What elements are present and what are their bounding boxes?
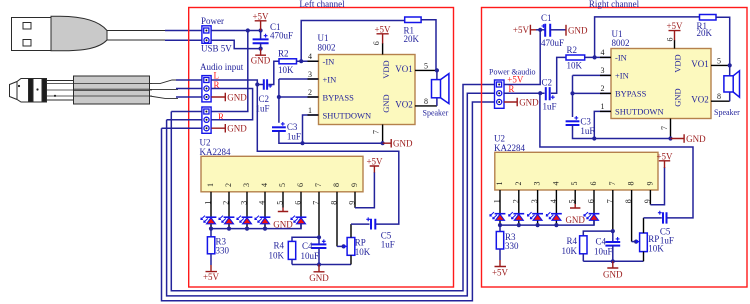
svg-text:U1: U1 <box>318 33 329 43</box>
pin 3 right <box>600 74 611 76</box>
capacitor C1 470uF <box>253 22 293 48</box>
wire R audio to C5 loop right <box>540 93 693 218</box>
ground GND at J4 pin3 <box>504 97 539 107</box>
wire J3 pin2 to left edge <box>167 119 202 121</box>
op-amp U1 8002 right channel body <box>611 29 711 119</box>
svg-text:5: 5 <box>568 199 577 203</box>
junction at 247.8,30.5 <box>246 28 250 32</box>
svg-text:8: 8 <box>717 92 721 101</box>
svg-text:Audio input: Audio input <box>200 62 244 72</box>
svg-text:8: 8 <box>624 199 633 203</box>
op-amp U1 8002 body <box>318 33 416 125</box>
wire LED common rail right <box>500 220 594 225</box>
wire pin9 to +5V <box>355 172 374 208</box>
ground GND at pin5 <box>273 208 293 230</box>
capacitor C5 1uF <box>351 217 395 249</box>
potentiometer RP 10K right <box>636 218 664 261</box>
wire plug sleeve to J2 pin3 <box>176 96 202 98</box>
wire feedback to R1 right channel <box>595 17 700 58</box>
junction at C1 bottom <box>259 47 263 51</box>
svg-text:USB 5V: USB 5V <box>201 44 232 54</box>
ground GND at right pin7 <box>671 134 707 144</box>
pin 4 <box>264 192 266 229</box>
svg-text:9: 9 <box>645 182 654 186</box>
pin 7 GND right <box>670 119 672 139</box>
svg-text:VDD: VDD <box>673 54 683 72</box>
svg-text:3: 3 <box>601 66 605 75</box>
pin 1 <box>308 114 319 116</box>
svg-text:9: 9 <box>643 199 652 203</box>
pin 8 <box>336 192 338 247</box>
left channel border box <box>189 8 454 288</box>
svg-text:1uF: 1uF <box>287 132 301 142</box>
junction L node branch <box>255 82 259 86</box>
wire pin8 to RP wiper <box>337 245 344 247</box>
potentiometer RP 10K <box>343 224 370 264</box>
connector J3 to right channel <box>202 107 211 133</box>
resistor R1 20K right channel <box>697 15 717 39</box>
svg-text:5: 5 <box>570 182 579 186</box>
wire R2 to -IN right pin4 <box>585 56 611 58</box>
junction rail pin2 <box>227 227 231 231</box>
junction BYPASS right <box>570 91 574 95</box>
power +5V right of right U2 <box>656 151 673 168</box>
svg-text:BYPASS: BYPASS <box>323 92 355 102</box>
speaker LS2 <box>714 65 740 117</box>
LED D4 <box>255 216 271 224</box>
svg-text:10K: 10K <box>269 251 285 261</box>
ground GND at J2 pin3 <box>211 92 247 102</box>
wire R1 to VO1 right <box>716 17 730 65</box>
connector J4 Power &audio <box>489 68 535 109</box>
junction rail pin3 <box>245 227 249 231</box>
svg-text:R2: R2 <box>278 49 289 59</box>
capacitor C5 1uF right <box>644 211 674 246</box>
junction pin7-gnd right <box>668 136 672 140</box>
svg-text:1: 1 <box>206 183 215 187</box>
pin 4 right <box>600 56 611 58</box>
junction feedback right <box>593 55 597 59</box>
svg-text:6: 6 <box>665 38 674 42</box>
svg-text:7: 7 <box>605 199 614 203</box>
svg-text:6: 6 <box>294 201 303 205</box>
wire J3 pin1 to left edge <box>171 111 202 113</box>
ground GND below C4 <box>309 265 329 284</box>
power +5V below right R3 <box>492 260 509 278</box>
junction C1 plus node <box>538 28 542 32</box>
svg-text:R4: R4 <box>273 241 284 251</box>
svg-text:5: 5 <box>424 62 428 71</box>
svg-text:GND: GND <box>568 25 588 35</box>
wire bottom GND rail <box>292 264 351 266</box>
svg-text:1uF: 1uF <box>381 240 395 250</box>
ground GND right of C1 <box>566 25 588 36</box>
svg-text:2: 2 <box>222 201 231 205</box>
capacitor C3 1uF <box>272 122 301 142</box>
svg-text:-IN: -IN <box>615 53 627 63</box>
pin 5 right U2 <box>574 190 576 204</box>
svg-text:4: 4 <box>551 182 560 186</box>
IC U2 KA2284 body <box>201 156 363 192</box>
svg-text:330: 330 <box>216 246 230 256</box>
svg-text:+5V: +5V <box>513 25 530 35</box>
svg-text:+5V: +5V <box>203 272 220 282</box>
svg-text:R4: R4 <box>566 236 577 246</box>
svg-text:GND: GND <box>251 56 271 66</box>
pin 7 right U2 <box>612 190 614 231</box>
power +5V right of U2 <box>366 157 383 173</box>
resistor R3 330 right <box>496 225 519 260</box>
power +5V left of C1 right channel <box>513 25 536 35</box>
junction R branch node <box>538 91 542 95</box>
pin 1 <box>210 192 212 229</box>
svg-text:2: 2 <box>308 88 312 97</box>
power +5V at right pin6 <box>666 21 683 40</box>
wire C3 bottom rail to pin7 <box>279 131 383 143</box>
svg-text:C4: C4 <box>596 236 607 246</box>
svg-text:VO1: VO1 <box>395 64 413 74</box>
LED D1 <box>201 216 217 224</box>
wire R from J2 pin2 down to J3 pin2 <box>211 89 252 120</box>
svg-text:C3: C3 <box>580 117 591 127</box>
wire R signal to C2 right channel <box>504 92 545 94</box>
junction shutdown-rail right <box>592 136 596 140</box>
junction BYPASS node <box>277 95 281 99</box>
pin 2 right U2 <box>518 190 520 225</box>
wire feedback to R1 <box>301 21 405 62</box>
svg-text:10uF: 10uF <box>301 251 320 261</box>
junction shutdown-rail <box>300 141 304 145</box>
wire +IN vertical with BYPASS tap <box>279 79 319 123</box>
svg-text:Speaker: Speaker <box>714 108 740 117</box>
wire plug ring to J2 pin2 <box>176 88 202 90</box>
svg-text:+5V: +5V <box>656 151 673 161</box>
svg-text:3: 3 <box>530 199 539 203</box>
svg-text:3: 3 <box>240 201 249 205</box>
svg-text:470uF: 470uF <box>541 38 564 48</box>
wire SHUTDOWN pin1 down <box>303 115 319 143</box>
svg-text:Power: Power <box>201 16 224 26</box>
svg-text:2: 2 <box>224 183 233 187</box>
svg-text:5: 5 <box>717 56 721 65</box>
junction C4 bottom <box>317 262 321 266</box>
svg-text:GND: GND <box>393 138 413 148</box>
svg-text:7: 7 <box>660 126 669 130</box>
pin 8 VO2 <box>415 105 437 107</box>
wire J3 pin3 to left edge <box>162 127 203 129</box>
LED D10 <box>584 212 600 220</box>
wire +5V drop to J3 pin1 <box>211 31 247 112</box>
right channel border box <box>482 8 748 288</box>
wire C2 to R2 right channel <box>551 57 566 93</box>
wire bottom GND rail right <box>583 260 643 262</box>
pin 4 right U2 <box>555 190 557 225</box>
wire +5V rail from Power pin1 to C1 <box>211 30 260 32</box>
wire C2 right to R2 left <box>268 61 279 84</box>
pin 6 VDD <box>382 43 384 55</box>
svg-text:470uF: 470uF <box>270 31 293 41</box>
power +5V below R3 <box>203 265 220 282</box>
ground GND at pin7 <box>383 138 413 148</box>
svg-text:8: 8 <box>627 182 636 186</box>
pin 6 right U2 <box>593 190 595 225</box>
svg-text:KA2284: KA2284 <box>494 143 525 153</box>
wire plug tip to J2 pin1 <box>176 79 202 81</box>
LED D6 <box>490 212 506 220</box>
svg-text:8002: 8002 <box>612 38 630 48</box>
wire +5V interconnect left to right channel <box>171 85 494 291</box>
svg-text:4: 4 <box>258 201 267 205</box>
svg-text:1: 1 <box>308 106 312 115</box>
svg-text:C4: C4 <box>302 241 313 251</box>
ground GND at J3 pin3 <box>211 124 247 134</box>
pin 3 <box>308 78 319 80</box>
svg-text:+5V: +5V <box>252 11 269 21</box>
connector J1 Power (USB 5V) <box>201 16 232 54</box>
junction right C4 bottom <box>611 259 615 263</box>
svg-text:+5V: +5V <box>366 157 383 167</box>
pin 8 VO2 right <box>711 100 730 102</box>
junction right pin7 top rail <box>611 229 615 233</box>
ground GND at right pin5 <box>565 204 585 225</box>
svg-text:1uF: 1uF <box>580 126 594 136</box>
capacitor C2 1uF <box>256 79 273 113</box>
svg-text:4: 4 <box>601 48 605 57</box>
svg-text:C2: C2 <box>259 94 270 104</box>
resistor R2 10K <box>278 49 297 75</box>
svg-text:10uF: 10uF <box>594 246 613 256</box>
connector J2 Audio input <box>200 62 244 102</box>
wire USB +5V to Power pin1 <box>165 30 202 32</box>
svg-text:GND: GND <box>227 124 247 134</box>
pin 9 right U2 <box>649 190 651 205</box>
pin 3 right U2 <box>537 190 539 225</box>
svg-text:1: 1 <box>601 102 605 111</box>
resistor R4 10K <box>269 241 296 265</box>
svg-text:Right channel: Right channel <box>589 0 640 9</box>
svg-text:8: 8 <box>424 97 428 106</box>
svg-text:+5V: +5V <box>507 75 524 85</box>
svg-text:VO1: VO1 <box>691 59 709 69</box>
svg-text:SHUTDOWN: SHUTDOWN <box>323 110 372 120</box>
svg-text:1: 1 <box>204 201 213 205</box>
svg-text:10K: 10K <box>355 247 371 257</box>
LED D5 <box>291 216 307 224</box>
svg-text:GND: GND <box>227 92 247 102</box>
pin 2 <box>308 96 319 98</box>
svg-text:C3: C3 <box>287 122 298 132</box>
wire SHUTDOWN right down <box>594 111 611 138</box>
junction feedback node <box>299 59 303 63</box>
wire L from J2 pin1 to C2 <box>211 80 263 85</box>
wire Power pin2 to C1 bottom <box>211 40 260 48</box>
svg-text:VO2: VO2 <box>395 99 413 109</box>
speaker LS1 <box>423 70 449 117</box>
svg-text:3: 3 <box>242 183 251 187</box>
junction pin7-gnd <box>381 141 385 145</box>
LED D9 <box>546 212 562 220</box>
svg-text:L: L <box>214 71 220 81</box>
wire R1 right to VO1 node <box>421 20 436 71</box>
resistor R2 10K right channel <box>566 45 585 71</box>
svg-text:-IN: -IN <box>323 56 335 66</box>
wire +5V to C1 <box>536 29 545 31</box>
pin 3 <box>246 192 248 229</box>
svg-text:U2: U2 <box>200 137 211 147</box>
capacitor C4 10uF right <box>594 231 620 261</box>
svg-text:5: 5 <box>278 183 287 187</box>
svg-text:2: 2 <box>511 199 520 203</box>
svg-text:VDD: VDD <box>381 60 391 78</box>
svg-text:GND: GND <box>381 94 391 112</box>
svg-text:6: 6 <box>587 199 596 203</box>
power +5V symbol above C1 <box>252 11 269 30</box>
ground GND below right C4 <box>603 261 623 279</box>
svg-text:7: 7 <box>608 182 617 186</box>
LED D2 <box>219 216 235 224</box>
svg-text:1: 1 <box>495 182 504 186</box>
resistor R3 330 <box>207 229 229 265</box>
wire pin9 to +5V right <box>650 167 664 205</box>
pin 9 <box>354 192 356 208</box>
resistor R4 10K right <box>562 236 588 261</box>
pin 5 VO1 right <box>711 64 730 66</box>
IC U2 KA2284 right body <box>495 152 658 190</box>
svg-text:9: 9 <box>348 201 357 205</box>
svg-text:KA2284: KA2284 <box>200 147 231 157</box>
svg-text:4: 4 <box>549 199 558 203</box>
svg-text:BYPASS: BYPASS <box>615 89 647 99</box>
svg-text:RP: RP <box>648 234 659 244</box>
svg-text:C1: C1 <box>541 13 552 23</box>
junction VO1-speaker <box>435 68 439 72</box>
wire C1 to GND <box>550 29 566 31</box>
ground GND below C1 <box>251 49 271 66</box>
svg-text:330: 330 <box>505 241 519 251</box>
capacitor C1 470uF right channel <box>541 13 564 48</box>
junction pin8 wiper <box>342 244 346 248</box>
power +5V at pin6 <box>374 24 391 43</box>
wire C3 bottom rail right <box>573 125 671 139</box>
junction pin7 top rail <box>317 235 321 239</box>
pin 2 right <box>600 92 611 94</box>
wire GND interconnect left to right channel <box>162 102 495 301</box>
LED D3 <box>237 216 253 224</box>
pin 6 <box>300 192 302 229</box>
svg-text:+IN: +IN <box>323 74 337 84</box>
pin 7 <box>318 192 320 238</box>
svg-text:8002: 8002 <box>318 43 336 53</box>
junction rail pin1 <box>209 227 213 231</box>
svg-text:3: 3 <box>533 182 542 186</box>
svg-text:4: 4 <box>308 52 312 61</box>
svg-text:10K: 10K <box>567 61 583 71</box>
svg-text:Speaker: Speaker <box>423 109 449 118</box>
svg-text:RP: RP <box>355 238 366 248</box>
junction rail right pin3 <box>536 223 540 227</box>
svg-text:8: 8 <box>332 183 341 187</box>
LED D7 <box>509 212 525 220</box>
svg-text:C2: C2 <box>542 78 553 88</box>
svg-text:9: 9 <box>350 183 359 187</box>
svg-text:4: 4 <box>260 183 269 187</box>
wire +IN vertical right with BYPASS tap <box>573 75 612 117</box>
junction right pin8 wiper <box>634 240 638 244</box>
pin 8 right U2 <box>631 190 633 242</box>
capacitor C2 1uF right channel <box>542 78 557 112</box>
wire R4C4 top rail right <box>583 231 613 236</box>
svg-text:6: 6 <box>296 183 305 187</box>
svg-text:VO2: VO2 <box>691 95 709 105</box>
svg-text:3: 3 <box>308 70 312 79</box>
svg-text:8: 8 <box>330 201 339 205</box>
svg-text:7: 7 <box>314 183 323 187</box>
svg-text:5: 5 <box>276 201 285 205</box>
svg-text:2: 2 <box>514 182 523 186</box>
svg-text:6: 6 <box>589 182 598 186</box>
pin 5 VO1 <box>415 69 437 71</box>
svg-text:7: 7 <box>312 201 321 205</box>
wire USB GND to Power pin2 <box>165 39 202 41</box>
svg-text:+5V: +5V <box>492 268 509 278</box>
pin 1 right U2 <box>499 190 501 225</box>
junction at C1 top <box>259 28 263 32</box>
wire LED common rail <box>211 224 301 229</box>
wire R4C4 top rail <box>292 237 319 241</box>
svg-text:Left channel: Left channel <box>299 0 345 9</box>
junction VO1-speaker right <box>728 63 732 67</box>
capacitor C3 1uF right channel <box>566 116 595 136</box>
pin 1 right <box>600 110 611 112</box>
pin 5 <box>282 192 284 208</box>
svg-text:20K: 20K <box>404 34 420 44</box>
svg-text:20K: 20K <box>697 28 713 38</box>
pin 7 GND <box>382 125 384 144</box>
pin 6 VDD right <box>674 40 676 49</box>
junction rail pin4 <box>263 227 267 231</box>
svg-text:GND: GND <box>309 273 329 283</box>
wire L audio to C5 loop <box>257 85 399 225</box>
svg-text:1uF: 1uF <box>660 235 674 245</box>
svg-text:GND: GND <box>565 215 585 225</box>
svg-text:SHUTDOWN: SHUTDOWN <box>615 107 664 117</box>
svg-text:+5V: +5V <box>374 24 391 34</box>
USB plug drawing <box>12 16 168 51</box>
svg-text:GND: GND <box>519 97 539 107</box>
wire R interconnect left to right channel <box>167 93 495 296</box>
wire +5V drop to power connector <box>504 30 540 85</box>
svg-text:10K: 10K <box>562 246 578 256</box>
svg-text:1uF: 1uF <box>543 102 557 112</box>
svg-text:+IN: +IN <box>615 71 629 81</box>
capacitor C4 10uF <box>301 237 327 264</box>
svg-text:10K: 10K <box>278 65 294 75</box>
svg-text:6: 6 <box>372 41 381 45</box>
junction rail right pin1 <box>498 223 502 227</box>
svg-text:2: 2 <box>601 84 605 93</box>
svg-text:U2: U2 <box>494 134 505 144</box>
LED D8 <box>528 212 544 220</box>
svg-text:GND: GND <box>673 88 683 106</box>
resistor R1 20K <box>404 17 422 44</box>
svg-text:+5V: +5V <box>666 21 683 31</box>
svg-text:1: 1 <box>493 199 502 203</box>
svg-text:GND: GND <box>603 269 623 279</box>
pin 2 <box>228 192 230 229</box>
svg-text:R2: R2 <box>567 45 578 55</box>
pin 4 <box>308 60 319 62</box>
junction rail right pin4 <box>554 223 558 227</box>
